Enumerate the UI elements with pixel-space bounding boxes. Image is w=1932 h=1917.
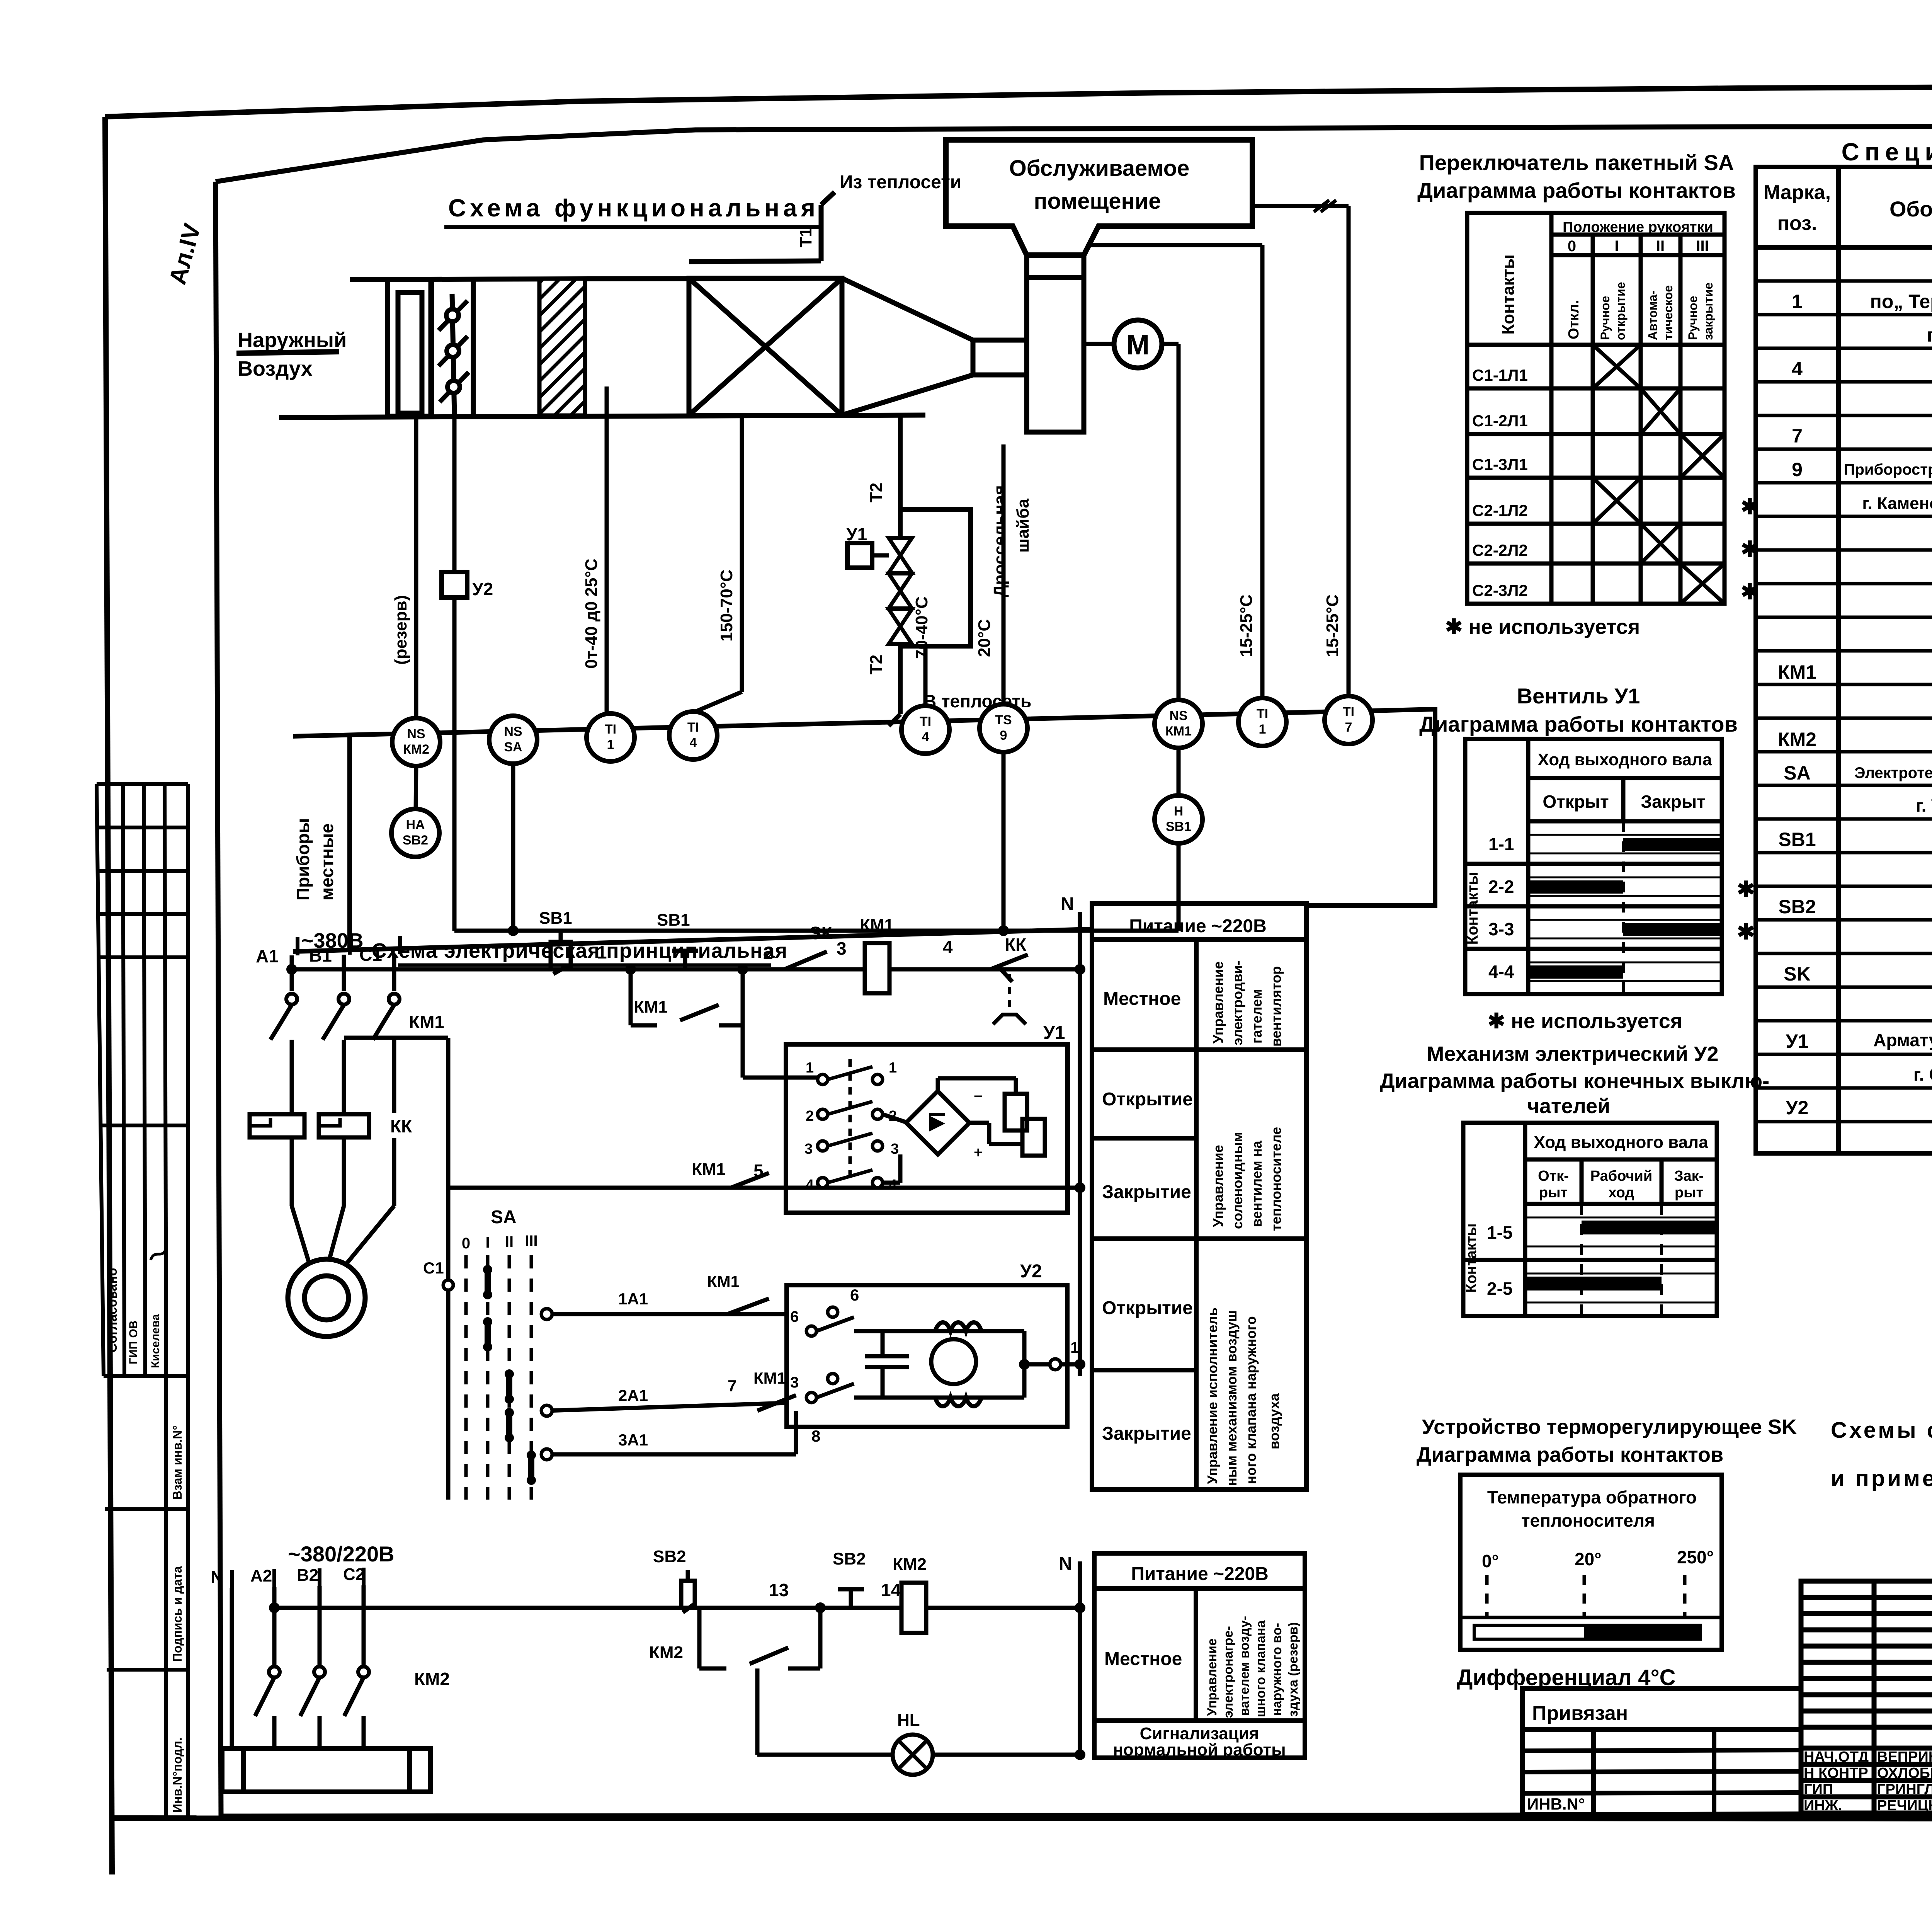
- svg-text:0т-40 д0 25°С: 0т-40 д0 25°С: [582, 558, 601, 669]
- svg-text:20°: 20°: [1575, 1549, 1602, 1569]
- svg-text:тическое: тическое: [1661, 285, 1675, 340]
- svg-text:Ход выходного вала: Ход выходного вала: [1534, 1133, 1708, 1152]
- svg-text:7: 7: [728, 1377, 736, 1395]
- svg-text:TI: TI: [1257, 707, 1268, 721]
- svg-text:КМ1: КМ1: [1165, 724, 1192, 739]
- svg-text:вателем возду-: вателем возду-: [1237, 1616, 1252, 1716]
- svg-text:✱ не используется: ✱ не используется: [1488, 1010, 1682, 1033]
- svg-text:4: 4: [889, 1177, 897, 1193]
- svg-text:1: 1: [597, 942, 607, 962]
- svg-text:Управление исполнитель: Управление исполнитель: [1204, 1308, 1220, 1484]
- svg-text:NS: NS: [407, 727, 425, 741]
- svg-text:воздуха: воздуха: [1266, 1393, 1282, 1449]
- svg-text:Температура обратного: Температура обратного: [1487, 1487, 1697, 1507]
- KM1 coil: [865, 943, 889, 993]
- damper blades: [439, 301, 469, 402]
- svg-text:3: 3: [790, 1374, 799, 1391]
- svg-text:местные: местные: [317, 823, 337, 901]
- svg-text:150-70°С: 150-70°С: [717, 570, 736, 642]
- svg-text:III: III: [1696, 238, 1709, 255]
- phase labels: [256, 945, 382, 966]
- svg-text:вентилятор: вентилятор: [1268, 966, 1284, 1047]
- phase verticals down to KM1 contacts: [270, 954, 394, 1263]
- U2 actuator square on damper line: [442, 572, 467, 598]
- svg-text:Электротехнический завод,: Электротехнический завод,: [1854, 764, 1932, 781]
- svg-text:Открытие: Открытие: [1102, 1089, 1193, 1110]
- svg-text:Зак-: Зак-: [1674, 1168, 1704, 1184]
- svg-text:SA: SA: [1784, 762, 1810, 784]
- KM2 coil: [901, 1583, 926, 1633]
- svg-text:4: 4: [806, 1177, 814, 1193]
- HL branch: [757, 1668, 1080, 1755]
- stubs and bottom junction line: [416, 748, 1179, 931]
- KK thermal elements: [250, 1114, 369, 1137]
- U1 valve control box: [786, 1044, 1068, 1213]
- svg-text:C1-2Л1: C1-2Л1: [1472, 412, 1528, 430]
- svg-text:SB2: SB2: [403, 833, 428, 848]
- svg-text:Устройство терморегулирующее S: Устройство терморегулирующее SK: [1422, 1415, 1797, 1439]
- motor M: [1114, 320, 1162, 368]
- svg-text:Привязан: Привязан: [1532, 1702, 1628, 1725]
- svg-text:Местное: Местное: [1103, 989, 1181, 1009]
- svg-text:Ручное: Ручное: [1686, 296, 1700, 340]
- spec body row lines: [1756, 281, 1932, 1122]
- duct body: [279, 278, 925, 417]
- svg-text:ГИП: ГИП: [1804, 1781, 1833, 1798]
- svg-text:3А1: 3А1: [618, 1431, 648, 1449]
- svg-text:II: II: [505, 1233, 514, 1250]
- T1 supply pipe on top: [689, 261, 821, 262]
- rotated range labels: [391, 558, 1342, 669]
- header bottom: [1756, 245, 1932, 250]
- svg-text:поз.: поз.: [1777, 212, 1817, 235]
- svg-text:Контакты: Контакты: [1464, 872, 1481, 945]
- svg-text:Схема функциональная: Схема функциональная: [448, 194, 819, 222]
- svg-text:✱: ✱: [1741, 579, 1759, 604]
- svg-text:Питание ~220В: Питание ~220В: [1131, 1564, 1269, 1584]
- svg-text:здуха (резерв): здуха (резерв): [1286, 1622, 1301, 1717]
- svg-text:4: 4: [922, 730, 929, 744]
- svg-text:SВ2: SВ2: [653, 1547, 686, 1566]
- svg-text:Схемы составлены для одной: Схемы составлены для одной приточной сис…: [1831, 1418, 1932, 1443]
- svg-text:Диаграмма работы контактов: Диаграмма работы контактов: [1419, 712, 1738, 736]
- phase ticks: [298, 936, 400, 955]
- Pitanie table 1: [1092, 904, 1306, 1490]
- solenoid windings: [938, 1078, 1045, 1156]
- svg-text:✱: ✱: [1737, 919, 1755, 944]
- svg-text:Диаграмма работы контактов: Диаграмма работы контактов: [1417, 178, 1736, 203]
- svg-text:Т1: Т1: [796, 228, 815, 247]
- svg-text:N: N: [1059, 1554, 1072, 1574]
- N rail lower: [1078, 1561, 1082, 1757]
- fan diffuser: [842, 255, 1084, 432]
- svg-text:SВ1: SВ1: [657, 911, 690, 930]
- svg-text:У2: У2: [472, 579, 493, 599]
- bypass loop: [900, 509, 971, 646]
- svg-text:КК: КК: [1005, 935, 1027, 955]
- svg-text:Обозначение: Обозначение: [1889, 197, 1932, 221]
- svg-text:КМ1: КМ1: [753, 1369, 786, 1387]
- svg-text:TI: TI: [605, 722, 616, 737]
- svg-text:чателей: чателей: [1527, 1095, 1611, 1118]
- svg-text:КМ2: КМ2: [893, 1555, 927, 1574]
- svg-text:TS: TS: [995, 713, 1012, 727]
- svg-text:г. Семенов: г. Семенов: [1913, 1064, 1932, 1084]
- svg-text:Согласовано: Согласовано: [105, 1268, 120, 1353]
- svg-text:С1: С1: [359, 945, 382, 965]
- svg-text:гателем: гателем: [1249, 989, 1265, 1044]
- svg-text:Наружный: Наружный: [238, 329, 347, 352]
- svg-text:SК: SК: [810, 923, 833, 943]
- svg-text:КМ1: КМ1: [692, 1160, 726, 1179]
- svg-text:Управление: Управление: [1210, 1145, 1226, 1227]
- svg-text:помещение: помещение: [1034, 189, 1161, 214]
- KM2 contacts: [255, 1677, 274, 1716]
- spec body text: [1778, 257, 1932, 1151]
- svg-text:Закрытие: Закрытие: [1102, 1182, 1191, 1202]
- svg-text:НА: НА: [406, 817, 425, 832]
- svg-text:1: 1: [1070, 1339, 1079, 1356]
- svg-text:Управление: Управление: [1210, 961, 1226, 1044]
- phase verticals: [232, 1585, 364, 1748]
- spec table outer: [1756, 167, 1932, 1153]
- sensor drop lines: [416, 206, 1349, 931]
- svg-text:Из теплосети: Из теплосети: [840, 172, 961, 192]
- spec header text: [1764, 179, 1932, 241]
- svg-text:НАЧ.ОТД: НАЧ.ОТД: [1804, 1749, 1869, 1765]
- damper rod: [452, 294, 454, 416]
- damper section verticals: [429, 279, 434, 416]
- svg-text:C2-2Л2: C2-2Л2: [1472, 541, 1528, 559]
- heater box: [222, 1748, 430, 1792]
- KM1 main contacts: [270, 1005, 292, 1040]
- svg-text:SВ2: SВ2: [833, 1549, 866, 1568]
- svg-text:Дроссельная: Дроссельная: [990, 485, 1009, 597]
- SB2 stop: [676, 1570, 700, 1612]
- svg-text:1: 1: [889, 1060, 897, 1076]
- svg-text:Н: Н: [1174, 804, 1184, 819]
- svg-text:КМ1: КМ1: [634, 998, 668, 1016]
- svg-text:Диаграмма работы контактов: Диаграмма работы контактов: [1417, 1443, 1723, 1466]
- svg-text:III: III: [525, 1233, 537, 1250]
- svg-text:КК: КК: [390, 1116, 412, 1136]
- svg-text:SВ1: SВ1: [539, 909, 572, 928]
- svg-text:Закрыт: Закрыт: [1641, 792, 1705, 812]
- N rail: [1078, 912, 1082, 1376]
- svg-text:А1: А1: [256, 946, 279, 966]
- Pitanie table 2: [1094, 1553, 1305, 1758]
- svg-text:КМ1: КМ1: [860, 916, 894, 935]
- svg-text:Механизм электрический У2: Механизм электрический У2: [1427, 1042, 1718, 1066]
- svg-text:и применимы для систем П3-П: и применимы для систем П3-П8.: [1831, 1466, 1932, 1491]
- svg-text:М: М: [1126, 330, 1150, 361]
- svg-text:20°С: 20°С: [975, 619, 994, 657]
- svg-text:Т2: Т2: [867, 483, 886, 502]
- svg-text:Контакты: Контакты: [1499, 254, 1518, 334]
- U2 mechanism box: [787, 1285, 1067, 1427]
- heat exchanger box: [689, 192, 842, 415]
- svg-text:открытие: открытие: [1614, 282, 1628, 340]
- svg-text:Откл.: Откл.: [1566, 300, 1582, 339]
- U1 bars: thin guide lines + black bars: [1528, 835, 1722, 981]
- svg-text:У1: У1: [1043, 1023, 1065, 1043]
- svg-text:+: +: [974, 1144, 983, 1161]
- svg-text:✱: ✱: [1737, 877, 1755, 901]
- svg-text:КМ2: КМ2: [414, 1669, 450, 1689]
- sensor circles row: [391, 696, 1372, 857]
- KM1 "5" line: [448, 1173, 1080, 1188]
- svg-text:У1: У1: [846, 524, 867, 544]
- svg-text:КМ2: КМ2: [649, 1643, 683, 1662]
- svg-text:г. Каменец-Подольский: г. Каменец-Подольский: [1862, 494, 1932, 513]
- svg-text:1: 1: [1792, 291, 1803, 312]
- U1 pins left col: [818, 1074, 883, 1188]
- svg-text:г. Ташкент: г. Ташкент: [1916, 795, 1932, 815]
- svg-text:C1-1Л1: C1-1Л1: [1472, 366, 1528, 384]
- SB1 stop button (П symbol): [544, 931, 577, 974]
- wires into U1: [743, 1025, 908, 1183]
- svg-text:1: 1: [607, 737, 614, 752]
- svg-text:Закрытие: Закрытие: [1102, 1423, 1191, 1444]
- svg-text:1-5: 1-5: [1487, 1222, 1512, 1243]
- lower control rung: [274, 1608, 1080, 1668]
- svg-text:0°: 0°: [1482, 1551, 1499, 1571]
- svg-text:9: 9: [1000, 728, 1007, 743]
- duct top: [350, 278, 842, 279]
- svg-text:по„ Термоприбор“: по„ Термоприбор“: [1870, 291, 1932, 312]
- svg-text:Местное: Местное: [1104, 1649, 1182, 1669]
- svg-text:ИНЖ.: ИНЖ.: [1804, 1798, 1842, 1814]
- U2 cap + motor: [854, 1323, 1050, 1406]
- svg-text:(резерв): (резерв): [391, 595, 410, 665]
- svg-text:Инв.N°подл.: Инв.N°подл.: [170, 1737, 184, 1813]
- svg-text:2А1: 2А1: [618, 1386, 648, 1405]
- U2 limit switches: [806, 1307, 838, 1403]
- svg-text:Вентиль У1: Вентиль У1: [1517, 684, 1640, 708]
- svg-text:9: 9: [1792, 459, 1803, 480]
- svg-text:теплоносителя: теплоносителя: [1521, 1510, 1655, 1531]
- svg-text:ГИП ОВ: ГИП ОВ: [127, 1321, 140, 1364]
- svg-text:Приборостроительный завод,: Приборостроительный завод,: [1844, 461, 1932, 478]
- svg-text:электродви-: электродви-: [1230, 960, 1245, 1045]
- svg-text:Приборы: Приборы: [293, 818, 313, 901]
- svg-text:3: 3: [837, 938, 847, 958]
- svg-text:2-5: 2-5: [1487, 1279, 1512, 1299]
- svg-text:SB1: SB1: [1166, 819, 1191, 834]
- svg-text:−: −: [974, 1088, 983, 1105]
- svg-text:I: I: [485, 1234, 490, 1251]
- svg-text:SB2: SB2: [1778, 896, 1816, 918]
- filter hatched block: [539, 279, 585, 415]
- svg-text:вентилем на: вентилем на: [1249, 1140, 1265, 1227]
- svg-text:II: II: [1656, 238, 1665, 255]
- svg-text:рыт: рыт: [1539, 1185, 1568, 1201]
- svg-text:1: 1: [806, 1060, 814, 1076]
- inner drawing frame: [216, 126, 1932, 1816]
- svg-text:КМ1: КМ1: [1778, 661, 1816, 683]
- svg-text:I: I: [1614, 238, 1619, 255]
- T2 return pipe with valve U1 and bypass: [900, 415, 971, 714]
- svg-text:Управление: Управление: [1205, 1638, 1219, 1716]
- svg-text:TI: TI: [1343, 705, 1354, 719]
- svg-text:6: 6: [790, 1308, 799, 1325]
- svg-text:А2: А2: [250, 1566, 272, 1585]
- svg-text:250°: 250°: [1677, 1547, 1714, 1567]
- svg-text:ВЕПРИНСКИЙ: ВЕПРИНСКИЙ: [1877, 1748, 1932, 1765]
- KM1 contacts on SA rows: [728, 1299, 796, 1411]
- svg-text:теплоносителе: теплоносителе: [1268, 1127, 1284, 1231]
- svg-text:1: 1: [1259, 722, 1266, 737]
- svg-text:Ход выходного вала: Ход выходного вала: [1537, 750, 1712, 769]
- svg-text:С1: С1: [423, 1259, 444, 1277]
- fan outlet box: [1027, 278, 1084, 432]
- svg-text:2: 2: [763, 943, 773, 963]
- node labels: [597, 937, 953, 963]
- svg-text:Ручное: Ручное: [1598, 296, 1612, 340]
- SB2 start: [838, 1589, 864, 1608]
- valve U1 bowtie: [889, 538, 912, 644]
- svg-text:Положение рукоятки: Положение рукоятки: [1563, 219, 1713, 235]
- svg-text:НL: НL: [897, 1711, 920, 1730]
- duct bottom: [279, 415, 925, 417]
- svg-text:C1-3Л1: C1-3Л1: [1472, 455, 1528, 473]
- KK breaker contact: [990, 955, 1028, 982]
- svg-text:SB1: SB1: [1778, 829, 1816, 850]
- SA X marks: [1593, 345, 1725, 604]
- svg-text:Т2: Т2: [867, 655, 886, 674]
- svg-text:Открытие: Открытие: [1102, 1298, 1193, 1318]
- svg-text:КМ1: КМ1: [707, 1272, 740, 1290]
- lines into motor: [290, 1138, 294, 1206]
- svg-text:TI: TI: [920, 714, 931, 729]
- svg-text:соленоидным: соленоидным: [1230, 1132, 1245, 1229]
- svg-text:В1: В1: [309, 945, 332, 965]
- svg-text:Переключатель пакетный SA: Переключатель пакетный SA: [1419, 150, 1734, 175]
- svg-text:8: 8: [811, 1427, 820, 1445]
- svg-text:Автома-: Автома-: [1646, 291, 1660, 340]
- supply channel up to room: [1024, 255, 1029, 278]
- svg-text:3-3: 3-3: [1488, 919, 1514, 939]
- svg-text:70-40°С: 70-40°С: [912, 596, 931, 659]
- svg-text:3: 3: [891, 1141, 899, 1157]
- svg-text:N: N: [211, 1568, 223, 1587]
- svg-text:ным механизмом воздуш: ным механизмом воздуш: [1224, 1310, 1240, 1486]
- svg-text:шного клапана: шного клапана: [1253, 1620, 1268, 1717]
- instruments box: [293, 709, 1435, 952]
- SB1 start button (T symbol): [672, 951, 698, 969]
- svg-text:Киселева: Киселева: [149, 1314, 162, 1368]
- svg-text:C2-1Л2: C2-1Л2: [1472, 501, 1528, 519]
- SA output rows: [547, 1314, 796, 1454]
- intake grille outer: [388, 279, 431, 416]
- svg-text:Подпись и дата: Подпись и дата: [170, 1566, 184, 1662]
- svg-text:Воздух: Воздух: [238, 357, 313, 380]
- svg-text:Открыт: Открыт: [1543, 792, 1609, 812]
- svg-text:0: 0: [462, 1235, 470, 1252]
- svg-text:4-4: 4-4: [1488, 962, 1514, 982]
- svg-text:ход: ход: [1608, 1185, 1634, 1201]
- svg-text:рыт: рыт: [1675, 1185, 1703, 1201]
- svg-text:4: 4: [1792, 358, 1803, 380]
- svg-text:Питание ~220В: Питание ~220В: [1129, 916, 1267, 936]
- svg-text:4: 4: [943, 937, 953, 957]
- svg-text:14: 14: [881, 1580, 901, 1600]
- line break marks on T1/7 line: [1314, 200, 1336, 212]
- svg-text:Рабочий: Рабочий: [1590, 1168, 1653, 1184]
- svg-text:NS: NS: [1169, 708, 1187, 723]
- svg-text:Обслуживаемое: Обслуживаемое: [1009, 156, 1190, 181]
- svg-text:Схема электрическая принципиал: Схема электрическая принципиальная: [372, 939, 788, 962]
- svg-text:В2: В2: [297, 1566, 318, 1585]
- svg-text:15-25°С: 15-25°С: [1323, 594, 1342, 657]
- svg-text:шайба: шайба: [1014, 499, 1032, 553]
- svg-text:г. Клин: г. Клин: [1927, 324, 1932, 346]
- svg-text:5: 5: [753, 1161, 764, 1181]
- self-hold verticals: [629, 969, 633, 1025]
- svg-text:1А1: 1А1: [618, 1290, 648, 1308]
- SA contact table: [1467, 213, 1725, 604]
- svg-text:7: 7: [1792, 425, 1803, 447]
- C1 solid line: [446, 1279, 451, 1500]
- svg-text:ГРИНГЛАУЗ: ГРИНГЛАУЗ: [1877, 1781, 1932, 1798]
- svg-text:3: 3: [804, 1141, 813, 1157]
- privyazan box: [1522, 1689, 1801, 1815]
- svg-text:~380/220В: ~380/220В: [288, 1542, 395, 1566]
- svg-text:Н КОНТР: Н КОНТР: [1804, 1765, 1868, 1781]
- main title block: [1801, 1581, 1932, 1813]
- served room box: [946, 140, 1252, 255]
- motor big circle: [288, 1259, 365, 1336]
- intake grille inner: [398, 293, 422, 413]
- svg-text:0: 0: [1568, 238, 1576, 255]
- svg-text:ного клапана наружного: ного клапана наружного: [1243, 1316, 1259, 1484]
- svg-text:15-25°С: 15-25°С: [1237, 594, 1256, 657]
- svg-text:электронагре-: электронагре-: [1221, 1626, 1236, 1718]
- svg-text:2: 2: [806, 1108, 814, 1124]
- bridge rectifier: [906, 1091, 969, 1154]
- svg-text:Спецификация элементов систе: Спецификация элементов систем П3-П8: [1842, 138, 1932, 166]
- svg-text:Арматурный завод,: Арматурный завод,: [1873, 1030, 1932, 1050]
- svg-text:C2-3Л2: C2-3Л2: [1472, 581, 1528, 599]
- svg-text:У2: У2: [1020, 1261, 1042, 1282]
- svg-text:КМ1: КМ1: [409, 1012, 444, 1032]
- svg-text:NS: NS: [504, 724, 522, 739]
- svg-text:SK: SK: [1784, 963, 1810, 985]
- svg-text:Взам инв.N°: Взам инв.N°: [170, 1425, 184, 1500]
- svg-text:SA: SA: [491, 1207, 517, 1227]
- svg-text:2-2: 2-2: [1488, 877, 1514, 897]
- svg-text:✱ не используется: ✱ не используется: [1445, 615, 1640, 638]
- svg-text:7: 7: [1345, 720, 1352, 735]
- svg-text:РЕЧИЦКАЯ: РЕЧИЦКАЯ: [1877, 1798, 1932, 1814]
- svg-text:4: 4: [690, 735, 697, 750]
- svg-text:Диаграмма работы конечных выкл: Диаграмма работы конечных выклю-: [1380, 1069, 1769, 1093]
- svg-text:Контакты: Контакты: [1463, 1223, 1480, 1292]
- svg-text:Отк-: Отк-: [1538, 1168, 1569, 1184]
- svg-text:нормальной работы: нормальной работы: [1113, 1740, 1286, 1759]
- svg-text:КМ2: КМ2: [403, 742, 429, 757]
- svg-text:Марка,: Марка,: [1764, 181, 1831, 204]
- svg-text:С2: С2: [343, 1565, 365, 1584]
- svg-text:N: N: [1061, 894, 1074, 914]
- svg-text:ИНВ.N°: ИНВ.N°: [1527, 1795, 1585, 1813]
- svg-text:SA: SA: [504, 740, 522, 754]
- control rung: [292, 969, 1080, 1279]
- svg-text:✱: ✱: [1741, 537, 1759, 561]
- svg-text:6: 6: [850, 1286, 859, 1304]
- svg-text:КМ2: КМ2: [1778, 729, 1816, 750]
- svg-text:1-1: 1-1: [1488, 834, 1514, 854]
